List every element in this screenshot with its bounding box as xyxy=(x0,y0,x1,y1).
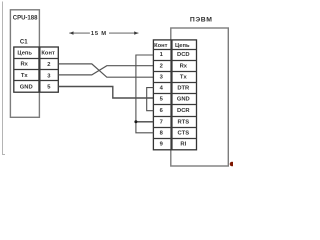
jumper DTR-DCR xyxy=(147,88,154,111)
svg-text:DTR: DTR xyxy=(177,86,190,92)
svg-text:Цепь: Цепь xyxy=(175,43,190,49)
svg-text:Цепь: Цепь xyxy=(17,51,32,57)
svg-text:RTS: RTS xyxy=(177,119,189,125)
svg-text:Tx: Tx xyxy=(21,73,29,79)
svg-text:CPU-188: CPU-188 xyxy=(13,16,38,22)
svg-text:DCR: DCR xyxy=(177,108,190,114)
svg-text:GND: GND xyxy=(177,97,190,103)
svg-text:7: 7 xyxy=(160,119,163,125)
device box CPU-188 xyxy=(10,10,39,118)
svg-text:DCD: DCD xyxy=(177,52,190,58)
dimension 15 M xyxy=(69,31,138,37)
svg-text:C1: C1 xyxy=(20,39,28,45)
jumper DCD-RTS-CTS xyxy=(136,55,154,133)
svg-text:CTS: CTS xyxy=(177,130,189,136)
svg-text:2: 2 xyxy=(160,63,163,69)
page frame line xyxy=(3,2,6,155)
svg-text:RI: RI xyxy=(180,142,186,148)
svg-text:Конт: Конт xyxy=(154,43,168,49)
wire Rx to PC Tx (crossover upper-left to lower-right) xyxy=(59,64,154,77)
connector table PEVM xyxy=(153,40,196,150)
connector table C1 xyxy=(14,47,59,92)
red corner dot xyxy=(230,162,235,167)
svg-text:GND: GND xyxy=(20,84,33,90)
svg-text:Rx: Rx xyxy=(180,63,188,69)
svg-text:Конт: Конт xyxy=(41,51,55,57)
junction dot xyxy=(134,120,137,123)
wire Tx to PC Rx (crossover lower-left to upper-right) xyxy=(59,66,154,75)
svg-text:Rx: Rx xyxy=(20,62,28,68)
svg-text:ПЭВМ: ПЭВМ xyxy=(190,16,213,23)
svg-text:15 М: 15 М xyxy=(91,31,107,37)
wire GND xyxy=(59,87,154,99)
device box PEVM xyxy=(171,16,229,166)
svg-text:Tx: Tx xyxy=(180,75,188,81)
svg-text:2: 2 xyxy=(47,62,50,68)
